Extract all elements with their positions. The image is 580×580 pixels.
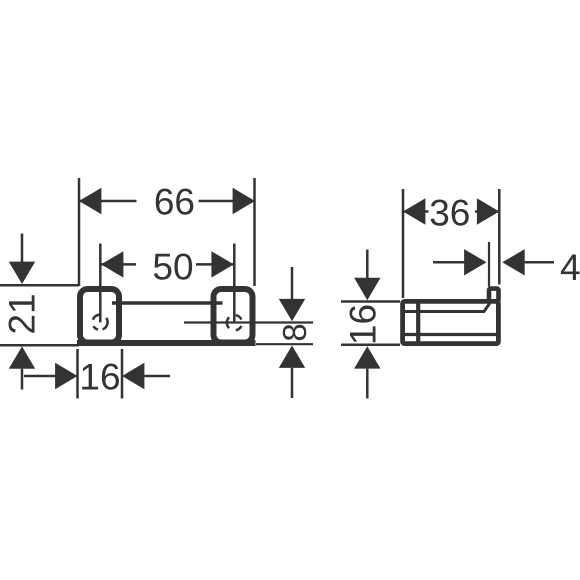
svg-text:16: 16 <box>79 357 120 398</box>
svg-text:21: 21 <box>2 293 43 334</box>
svg-text:16: 16 <box>343 304 384 345</box>
svg-text:8: 8 <box>276 323 313 341</box>
right screw hole circle <box>227 315 242 330</box>
front view: bar bottom edge <box>77 340 256 346</box>
svg-text:66: 66 <box>154 182 195 223</box>
side view: inner top line with chamfer <box>405 303 490 311</box>
dimension 66: label <box>137 185 199 217</box>
svg-text:50: 50 <box>152 247 193 288</box>
dimension 50: right arrow <box>211 251 233 277</box>
dimension 50: dimension line <box>101 263 234 266</box>
dimension 36: extension lines <box>403 189 499 298</box>
dimension 66: right arrow <box>233 188 255 214</box>
front view: bar top edge <box>112 301 223 305</box>
dimension 8: top arrow <box>291 267 294 398</box>
dimension 8: bottom arrow <box>279 346 305 368</box>
front view: left mounting plate (rosette) <box>80 289 119 343</box>
dimension 36: label <box>429 196 476 227</box>
dimension 50: centre extension lines <box>100 244 234 323</box>
dimension 21: top arrow <box>21 234 24 263</box>
dimension 21: extension lines <box>0 285 79 345</box>
front view: right mounting plate (rosette) <box>214 289 253 343</box>
side view: inner bottom line <box>405 333 497 336</box>
side view: body outline <box>403 301 499 343</box>
dimension 4: right arrow <box>525 261 554 264</box>
dimension 16 front: right arrow <box>144 375 170 378</box>
dimension 50: label <box>136 250 196 282</box>
dimension 21: bottom arrow <box>21 369 24 390</box>
dimension 36: dimension line <box>403 210 499 213</box>
dimension 66: dimension line <box>79 200 255 203</box>
dimension 16 side: extension lines <box>341 302 400 345</box>
dimension 16 side: top arrow <box>366 250 369 399</box>
left screw hole circle <box>93 315 108 330</box>
svg-text:36: 36 <box>429 193 470 234</box>
dimension 36: left arrow <box>403 198 425 224</box>
dimension 16 front: extension lines <box>78 349 123 399</box>
side view: inner vertical line <box>416 303 420 343</box>
dimension 16 front: left arrow <box>24 375 56 378</box>
svg-text:4: 4 <box>560 247 580 288</box>
dimension 66: left arrow <box>79 188 101 214</box>
dimension 16 side: bottom arrow <box>354 346 380 368</box>
dimension 66: extension lines <box>79 178 255 286</box>
dimension 36: right arrow <box>477 198 499 224</box>
side view: wall tab <box>489 289 499 302</box>
dimension 4: left arrow <box>433 261 465 264</box>
dimension 4: extension line <box>488 242 490 287</box>
dimension 50: left arrow <box>101 251 123 277</box>
dimension 8: extension lines <box>184 323 313 345</box>
